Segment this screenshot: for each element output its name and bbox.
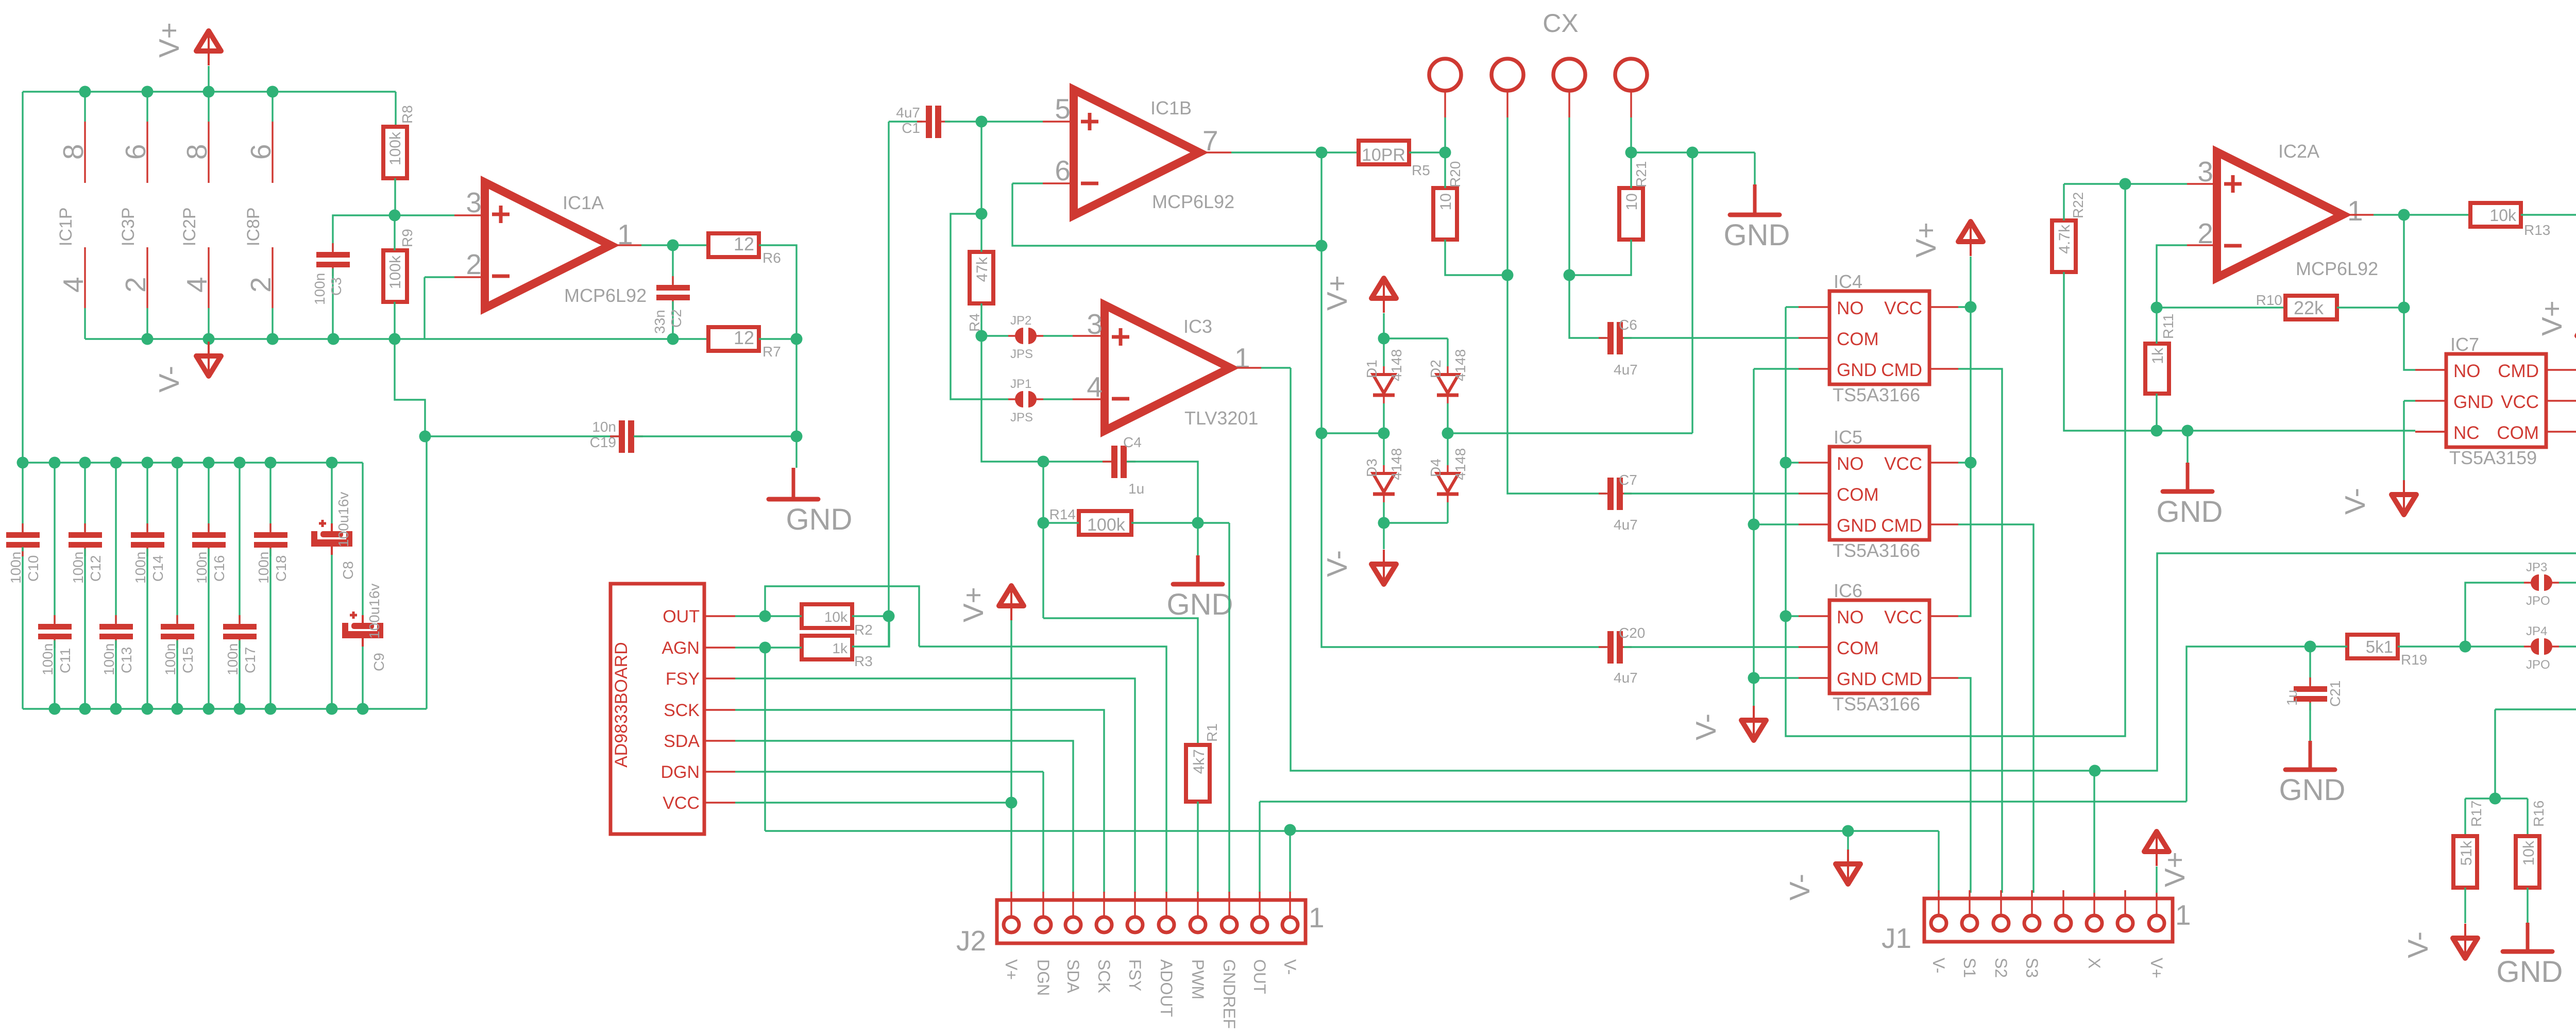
wire OUT bus line	[1260, 801, 2187, 802]
svg-text:1u: 1u	[1128, 481, 1144, 497]
wire to R1 top	[1043, 618, 1198, 745]
svg-text:C17: C17	[242, 647, 258, 673]
IC7 pin stub VCC	[2546, 400, 2576, 401]
svg-text:6: 6	[245, 144, 277, 160]
svg-text:VCC: VCC	[1884, 607, 1922, 627]
svg-text:10n: 10n	[592, 419, 616, 435]
pin stub red top	[84, 122, 86, 183]
svg-text:V-: V-	[1690, 714, 1722, 740]
wire inverting rail	[85, 338, 708, 339]
wire R11 bottom	[2156, 394, 2157, 431]
wire R16 top	[2527, 799, 2528, 836]
junction at 2565,296	[1316, 147, 1328, 159]
junction bottom rail	[203, 703, 215, 715]
wire IC1A pin2	[425, 276, 454, 278]
svg-text:CMD: CMD	[2498, 361, 2539, 381]
svg-text:4u7: 4u7	[1614, 517, 1638, 533]
resistor R21	[1619, 188, 1643, 240]
junction at 2686,657	[1378, 333, 1390, 345]
junction V- arrow	[1842, 825, 1854, 837]
wire pin5 node to R4	[980, 214, 982, 252]
junction at 1485,1196	[759, 610, 771, 622]
capacitor C10	[6, 523, 40, 556]
svg-text:100n: 100n	[101, 643, 117, 675]
svg-text:VCC: VCC	[1884, 454, 1922, 474]
supply V+ near AD9833	[999, 586, 1024, 620]
svg-text:PWM: PWM	[1189, 959, 1207, 999]
svg-text:8: 8	[181, 144, 213, 160]
svg-text:100k: 100k	[387, 131, 404, 165]
svg-text:100n: 100n	[225, 643, 241, 675]
junction at 647,658	[328, 333, 340, 345]
wire C6 to IC4 COM	[1624, 337, 1799, 338]
connector J2 pin SCK	[1096, 892, 1112, 932]
wire R22 top	[2063, 184, 2064, 220]
svg-text:R16: R16	[2531, 801, 2547, 827]
svg-text:22k: 22k	[2294, 297, 2324, 318]
svg-text:3: 3	[1087, 308, 1103, 340]
svg-text:C10: C10	[25, 555, 41, 582]
svg-text:R17: R17	[2468, 801, 2484, 827]
wire J2 V+ riser	[1010, 620, 1012, 893]
wire J2 OUT riser	[1259, 802, 1260, 893]
wire C3 top to node	[333, 215, 395, 251]
wire C9 top leg	[362, 463, 363, 615]
analog switch IC7	[2446, 354, 2546, 447]
wire DGN riser	[1042, 772, 1044, 893]
wire SCK line	[735, 710, 1104, 893]
svg-text:SDA: SDA	[664, 732, 700, 751]
wire J2 V- riser	[1289, 830, 1291, 893]
IC5 pin stub CMD	[1929, 523, 1958, 525]
svg-text:4k7: 4k7	[1191, 749, 1208, 774]
AD9833 pin stub SDA	[704, 740, 735, 741]
wire out to IC7 NO	[2404, 215, 2415, 370]
junction at 825,847	[419, 431, 431, 443]
wire to JP3	[2465, 583, 2524, 647]
svg-text:GNDREF: GNDREF	[1220, 959, 1239, 1029]
junction at 1546,847	[791, 431, 803, 443]
svg-text:V-: V-	[1281, 959, 1299, 975]
IC6 pin stub COM	[1799, 646, 1829, 648]
IC1A pin2 stub	[454, 276, 485, 278]
wire to GNDREF riser	[1198, 522, 1229, 523]
wire pin stub top	[208, 92, 209, 122]
svg-text:51k: 51k	[2458, 840, 2475, 865]
capacitor C17	[223, 615, 257, 648]
wire JP2 node to C4 node	[981, 336, 1043, 462]
junction at 1905,236	[976, 116, 988, 128]
junction at 766,418	[389, 210, 401, 222]
wire C11 bottom leg	[54, 640, 55, 709]
jumper JP2	[1008, 314, 1043, 361]
svg-text:COM: COM	[1837, 638, 1879, 658]
op-amp IC3	[1105, 305, 1230, 431]
wire R19 left	[2310, 646, 2347, 647]
junction bottom rail	[49, 703, 61, 715]
CX pad 2	[1492, 59, 1523, 91]
wire R3 left	[765, 647, 802, 648]
wire pin3 row	[2064, 183, 2187, 184]
junction bottom rail	[110, 703, 122, 715]
svg-text:C11: C11	[57, 648, 73, 673]
IC5 pin stub GND	[1799, 523, 1829, 525]
junction at 1306,476	[667, 240, 679, 251]
connector J1 box	[1924, 898, 2173, 942]
svg-text:10PR: 10PR	[1362, 145, 1405, 165]
wire C7 to IC5 COM	[1624, 492, 1799, 494]
wire cap bank top rail	[23, 462, 363, 463]
capacitor C16	[192, 523, 226, 556]
svg-text:CX: CX	[1543, 9, 1578, 38]
resistor R3	[802, 636, 852, 659]
capacitor C7	[1599, 478, 1632, 510]
junction at 3825,898	[1965, 457, 1977, 469]
svg-text:IC5: IC5	[1834, 427, 1862, 448]
wire C21 bottom	[2309, 703, 2311, 741]
svg-text:100n: 100n	[40, 643, 56, 675]
wire V+ to diodes	[1383, 313, 1384, 338]
wire R17 top	[2464, 799, 2466, 836]
wire JP4 left	[2465, 646, 2524, 647]
svg-text:R8: R8	[399, 105, 415, 124]
ground GND mid	[2157, 463, 2223, 529]
wire C2 top	[672, 245, 673, 284]
svg-text:R21: R21	[1633, 161, 1649, 188]
svg-text:V+: V+	[2536, 300, 2568, 336]
svg-text:V-: V-	[1929, 958, 1948, 973]
ground GND near R14	[1167, 555, 1233, 621]
svg-text:FSY: FSY	[1126, 959, 1144, 991]
junction at 4843,1550	[2489, 793, 2501, 805]
svg-text:DGN: DGN	[660, 762, 700, 782]
wire pin stub top	[146, 92, 148, 122]
wire to JP2 left	[981, 335, 1008, 336]
svg-text:TS5A3166: TS5A3166	[1833, 693, 1920, 715]
wire pad1 down	[1444, 117, 1446, 152]
wire D3 anode	[1383, 433, 1384, 465]
wire cap bank bottom rail	[23, 708, 427, 709]
svg-text:R9: R9	[399, 229, 415, 247]
junction at 2810,841	[1442, 428, 1454, 439]
svg-text:10: 10	[1437, 193, 1454, 210]
svg-text:JPO: JPO	[2526, 658, 2550, 672]
svg-text:R7: R7	[762, 344, 781, 360]
CX pad 4 stub	[1630, 91, 1632, 117]
resistor R22	[2052, 220, 2076, 272]
wire to JP1 left	[951, 214, 1008, 399]
svg-text:2: 2	[245, 277, 277, 293]
junction at 529,178	[267, 86, 279, 98]
IC6 pin stub NO	[1799, 615, 1829, 617]
supply V- diodes	[1371, 550, 1396, 584]
connector J2 pin PWM	[1190, 892, 1206, 932]
wire R4 to JP2	[980, 303, 982, 336]
supply V+ switches	[1958, 222, 1983, 256]
svg-text:CMD: CMD	[1881, 516, 1922, 536]
wire C4 right	[1127, 462, 1198, 523]
wire JP1 to IC3 pin4	[1043, 398, 1073, 400]
svg-text:2: 2	[2197, 217, 2213, 249]
svg-text:10k: 10k	[824, 609, 848, 625]
svg-text:4.7k: 4.7k	[2056, 224, 2073, 254]
connector J1 pin nc	[2056, 890, 2071, 931]
junction at 405,658	[203, 333, 215, 345]
junction bottom rail	[142, 703, 154, 715]
svg-text:JP3: JP3	[2526, 561, 2547, 574]
IC6 pin stub VCC	[1929, 615, 1958, 617]
svg-text:R5: R5	[1412, 162, 1430, 178]
wire C8 top leg	[331, 463, 332, 523]
svg-text:TS5A3159: TS5A3159	[2449, 447, 2537, 468]
svg-text:4u7: 4u7	[1614, 670, 1638, 686]
wire J1 X riser	[2093, 771, 2095, 893]
svg-text:S1: S1	[1960, 958, 1979, 978]
svg-text:IC6: IC6	[1834, 580, 1862, 601]
svg-text:GND: GND	[2453, 392, 2494, 412]
connector J2 pin DGN	[1036, 892, 1051, 932]
svg-text:10k: 10k	[2520, 840, 2537, 865]
IC7 NC stub join	[2415, 431, 2446, 432]
CX pad 3 stub	[1568, 91, 1570, 117]
svg-text:JPS: JPS	[1010, 411, 1033, 424]
supply V+ near J1	[2144, 831, 2169, 866]
resistor R7	[708, 327, 759, 351]
junction at 3404,1018	[1748, 519, 1760, 531]
IC6 pin stub CMD	[1929, 677, 1958, 678]
resistor R6	[708, 233, 759, 257]
wire C12 bottom leg	[84, 549, 86, 709]
junction at 4186,836	[2151, 425, 2163, 437]
wire R10 right	[2337, 307, 2404, 308]
wire OUT	[735, 615, 765, 617]
wire R10 left	[2157, 307, 2285, 308]
svg-text:R3: R3	[854, 653, 873, 669]
svg-text:C18: C18	[273, 555, 289, 582]
svg-text:100k: 100k	[387, 255, 404, 289]
AD9833 pin stub SCK	[704, 709, 735, 710]
resistor R11	[2145, 344, 2169, 394]
svg-text:3: 3	[466, 186, 482, 218]
junction at 3166,296	[1625, 147, 1637, 159]
wire to GND	[2187, 431, 2188, 463]
wire C13 top leg	[115, 463, 116, 623]
svg-text:GND: GND	[2497, 955, 2563, 989]
wire JP2 to IC3 pin3	[1043, 335, 1073, 336]
svg-text:C13: C13	[118, 647, 134, 673]
resistor R14	[1079, 511, 1131, 535]
svg-text:IC1P: IC1P	[56, 207, 76, 246]
wire R11 top	[2156, 308, 2157, 344]
wire R2 right	[852, 615, 889, 617]
wire R5 right	[1409, 151, 1445, 153]
svg-text:AD9833BOARD: AD9833BOARD	[612, 642, 631, 768]
svg-text:NO: NO	[2453, 361, 2481, 381]
wire C13 bottom leg	[115, 640, 116, 709]
IC1A pin3 stub	[454, 214, 485, 216]
svg-text:JPO: JPO	[2526, 594, 2550, 608]
svg-text:R2: R2	[854, 622, 873, 638]
jumper JP1	[1008, 377, 1043, 424]
wire pin stub top	[272, 92, 273, 122]
junction at 4125,357	[2120, 178, 2131, 190]
op-amp IC2A	[2217, 152, 2343, 278]
wire IC6 CMD to S1	[1958, 678, 1971, 893]
IC5 pin stub COM	[1799, 492, 1829, 494]
svg-text:JP2: JP2	[1010, 314, 1031, 328]
analog switch IC5	[1829, 447, 1929, 540]
wire rail to R8	[395, 92, 396, 127]
svg-text:VCC: VCC	[1884, 298, 1922, 318]
wire R20 to pad2 line	[1445, 240, 1507, 275]
svg-text:D1: D1	[1364, 360, 1380, 378]
wire SDA line	[735, 741, 1073, 893]
svg-text:IC3P: IC3P	[118, 207, 138, 246]
wire D2 cathode	[1447, 403, 1448, 433]
svg-text:V+: V+	[957, 587, 989, 622]
wire V+ node to D2	[1384, 337, 1448, 339]
diode D2	[1437, 366, 1459, 403]
wire IC5 VCC	[1958, 462, 1971, 463]
junction at 1485,1257	[759, 642, 771, 654]
wire to V-	[1383, 523, 1384, 549]
svg-text:1u: 1u	[2284, 690, 2300, 706]
wire C1 to IC1B pin5	[945, 121, 1043, 122]
junction at 4246,836	[2182, 425, 2194, 437]
wire pin stub bottom	[272, 308, 273, 339]
pin stub red bottom	[84, 247, 86, 308]
wire IC3 out riser / X line	[1291, 368, 2095, 771]
wire pad4 down	[1630, 117, 1632, 152]
wire pin6	[1012, 182, 1043, 184]
wire C19 to GND node	[634, 435, 796, 437]
junction at 1725,1196	[883, 610, 895, 622]
svg-text:3: 3	[2197, 156, 2213, 188]
svg-text:OUT: OUT	[663, 607, 700, 626]
junction at 2325,1015	[1192, 517, 1204, 529]
svg-text:R6: R6	[762, 250, 781, 266]
connector J1 pin V+	[2149, 890, 2164, 931]
wire R17 bottom	[2464, 888, 2466, 923]
svg-text:4u7: 4u7	[1614, 362, 1638, 378]
wire R13 right	[2521, 214, 2576, 215]
wire node to IC1A pin3	[395, 214, 454, 216]
svg-text:1: 1	[2175, 899, 2191, 931]
junction at 4785,1255	[2460, 641, 2471, 653]
wire to R21	[1630, 152, 1632, 188]
AD9833 pin stub FSY	[704, 677, 735, 679]
connector J1 pin V-	[1931, 890, 1946, 931]
wire GND bus	[1753, 369, 1754, 717]
svg-text:1: 1	[2347, 195, 2363, 227]
wire R2 left	[765, 615, 802, 617]
svg-text:GND: GND	[1837, 516, 1877, 536]
junction at 2025,896	[1038, 456, 1049, 468]
wire D3 cathode	[1383, 502, 1384, 523]
IC5 pin stub NO	[1799, 462, 1829, 463]
wire R7 right	[759, 338, 796, 339]
wire R8 to node	[394, 178, 396, 215]
svg-text:SCK: SCK	[1095, 959, 1113, 993]
IC1B pin7 stub	[1199, 151, 1231, 153]
capacitor C15	[161, 615, 194, 648]
svg-text:COM: COM	[1837, 485, 1879, 505]
svg-text:6: 6	[1055, 155, 1071, 186]
svg-text:C16: C16	[211, 555, 227, 582]
svg-text:COM: COM	[2497, 423, 2539, 443]
junction at 1905,415	[976, 208, 988, 220]
wire D2 anode	[1447, 338, 1448, 366]
wire to V-	[2403, 401, 2404, 481]
junction bottom rail	[265, 703, 277, 715]
wire pad4 to GND	[1631, 151, 1755, 153]
svg-text:V+: V+	[1321, 275, 1353, 311]
jumper JP4	[2524, 624, 2559, 672]
svg-text:100u16v: 100u16v	[335, 492, 351, 547]
svg-text:V+: V+	[2147, 958, 2166, 978]
svg-text:DGN: DGN	[1034, 959, 1053, 996]
svg-text:V-: V-	[1321, 550, 1353, 577]
svg-text:TS5A3166: TS5A3166	[1833, 384, 1920, 405]
CX pad 1 stub	[1444, 91, 1446, 117]
wire R14 left	[1043, 522, 1079, 523]
wire JP4 right to IC8 out	[2559, 647, 2576, 741]
wire cap bank riser to C19 line	[426, 436, 427, 709]
svg-text:D3: D3	[1364, 458, 1380, 477]
junction at 3046,534	[1564, 269, 1575, 281]
diode D1	[1373, 366, 1395, 403]
wire ADOUT line	[919, 647, 1166, 893]
svg-text:GND: GND	[1837, 360, 1877, 380]
resistor R16	[2516, 836, 2539, 888]
AD9833 pin stub AGN	[704, 647, 735, 648]
svg-text:100n: 100n	[8, 552, 24, 584]
analog switch IC4	[1829, 291, 1929, 384]
supply V- IC7	[2392, 480, 2416, 515]
svg-text:GND: GND	[1724, 218, 1790, 252]
wire D4 cathode	[1447, 502, 1448, 523]
wire step R9-rail to C19 line	[395, 339, 425, 436]
svg-text:R22: R22	[2070, 192, 2086, 218]
wire C16 top leg	[208, 463, 209, 531]
resistor R20	[1433, 188, 1457, 240]
IC6 pin stub GND	[1799, 677, 1829, 678]
pin stub red bottom	[208, 247, 209, 308]
wire to C19	[425, 435, 619, 437]
wire pad3 line to C6	[1569, 117, 1606, 338]
wire R19 right	[2398, 646, 2465, 647]
svg-text:NO: NO	[1837, 454, 1864, 474]
junction at 4666,597	[2398, 302, 2410, 314]
svg-text:R4: R4	[967, 313, 982, 332]
svg-text:6: 6	[120, 144, 151, 160]
svg-text:OUT: OUT	[1250, 959, 1269, 994]
svg-text:TLV3201: TLV3201	[1184, 407, 1258, 429]
junction at 4484,1255	[2304, 641, 2316, 653]
svg-text:C6: C6	[1619, 317, 1637, 333]
wire C16 bottom leg	[208, 549, 209, 709]
junction bottom rail	[234, 703, 246, 715]
IC4 pin stub COM	[1799, 337, 1829, 338]
junction at 405,178	[203, 86, 215, 98]
junction at 4666,417	[2398, 209, 2410, 221]
wire V+ to J1	[2156, 867, 2157, 893]
svg-text:D2: D2	[1428, 360, 1444, 378]
wire C1 left	[889, 121, 922, 122]
junction at 529,658	[267, 333, 279, 345]
junction at 766,658	[389, 333, 401, 345]
svg-text:4: 4	[57, 277, 89, 293]
